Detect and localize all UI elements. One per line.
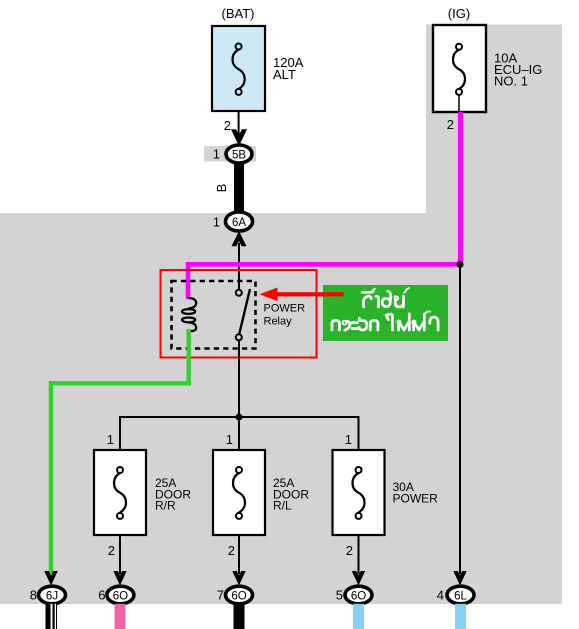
svg-text:POWER: POWER	[393, 491, 439, 505]
label (BAT)	[222, 6, 255, 21]
relay coil	[182, 298, 196, 331]
svg-text:6O: 6O	[231, 591, 246, 603]
arrow into 6L	[453, 571, 466, 586]
svg-text:6A: 6A	[232, 217, 246, 229]
svg-text:2: 2	[346, 543, 353, 558]
pin 1 labels of bottom fuses	[107, 432, 352, 447]
value label 120A ALT	[273, 55, 304, 82]
fuse 25A DOOR R/L	[213, 450, 265, 535]
arrow into 6O (7)	[232, 571, 245, 586]
connector 6L	[447, 586, 474, 604]
svg-text:1: 1	[226, 432, 233, 447]
connector 6A	[226, 212, 253, 231]
relay dashed box	[172, 281, 256, 349]
svg-text:4: 4	[437, 588, 444, 603]
svg-text:2: 2	[447, 117, 454, 132]
pin 2 labels of bottom fuses	[108, 543, 353, 558]
connector 6O (6)	[107, 586, 134, 604]
ground plane gray area main	[0, 213, 562, 604]
svg-text:1: 1	[107, 432, 114, 447]
svg-text:1: 1	[345, 432, 352, 447]
svg-text:2: 2	[108, 543, 115, 558]
svg-text:(BAT): (BAT)	[222, 6, 255, 21]
wire from 6A down to relay switch	[238, 243, 240, 290]
svg-text:1: 1	[213, 147, 220, 162]
arrow into 6O (5)	[352, 571, 365, 586]
magenta IG wire down and across to relay coil	[188, 112, 462, 299]
arrow into 6O (6)	[113, 571, 126, 586]
arrow out of 6A	[232, 231, 247, 246]
svg-text:R/L: R/L	[273, 499, 292, 513]
red annotation arrow	[260, 288, 344, 302]
connector 6O (7)	[226, 586, 253, 604]
label (IG)	[448, 6, 470, 21]
svg-text:6J: 6J	[46, 591, 58, 603]
svg-text:6O: 6O	[113, 591, 128, 603]
black wire stub	[234, 604, 245, 629]
svg-text:6L: 6L	[454, 591, 467, 603]
svg-text:2: 2	[228, 543, 235, 558]
svg-text:6O: 6O	[351, 591, 366, 603]
svg-text:8: 8	[30, 588, 37, 603]
value label 25A DOOR R/R	[155, 476, 191, 513]
pin 5 label	[336, 588, 343, 603]
value label 10A ECU-IG NO.1	[494, 51, 542, 89]
pin 6 label	[98, 588, 105, 603]
pin 1 label	[213, 215, 220, 230]
junction node	[236, 414, 243, 421]
striped wire stub below 6J	[46, 604, 58, 629]
wire fuse R/L to 6O	[238, 535, 240, 574]
svg-text:Relay: Relay	[264, 316, 293, 328]
pin 8 label	[30, 588, 37, 603]
wire fuse R/R to 6O	[119, 535, 121, 574]
wire to fuse DOOR R/L	[238, 417, 240, 450]
relay red highlight rectangle	[161, 270, 317, 358]
wire to fuse POWER	[358, 416, 360, 450]
green callout box	[323, 285, 448, 341]
svg-text:5B: 5B	[232, 150, 246, 162]
label POWER Relay	[264, 303, 306, 328]
wire fuse POWER to 6O	[358, 535, 360, 574]
value label 30A POWER	[393, 480, 439, 505]
connector 6J	[39, 586, 66, 604]
pin 4 label	[437, 588, 444, 603]
svg-text:POWER: POWER	[264, 303, 306, 315]
relay switch	[236, 289, 250, 340]
light blue wire stub	[353, 604, 364, 629]
svg-text:1: 1	[213, 215, 220, 230]
green wire from relay coil to 6J	[51, 329, 191, 574]
Thai label line 2 (power window)	[332, 311, 438, 330]
light blue wire stub	[455, 604, 466, 629]
junction node at IG branch	[457, 261, 464, 268]
value label 25A DOOR R/L	[273, 476, 309, 513]
svg-text:2: 2	[224, 118, 231, 133]
thick wire B between 5B and 6A	[234, 162, 244, 212]
arrow into 5B	[231, 129, 247, 146]
wire to fuse DOOR R/R	[119, 416, 121, 450]
pink wire stub	[115, 604, 126, 629]
pin 2 label	[447, 117, 454, 132]
fusible link 120A ALT box	[212, 26, 265, 111]
svg-text:5: 5	[336, 588, 343, 603]
fuse 10A ECU-IG box	[433, 25, 486, 112]
svg-text:B: B	[214, 184, 229, 193]
wire label B	[214, 184, 229, 193]
svg-text:(IG): (IG)	[448, 6, 470, 21]
pin 1 label	[213, 147, 220, 162]
connector 6O (5)	[345, 586, 372, 604]
arrow into 6J	[44, 571, 57, 586]
pin 2 label	[224, 118, 231, 133]
wire from relay switch to branch junction	[238, 340, 240, 417]
fuse 25A DOOR R/R	[94, 450, 146, 535]
Thai label line 1 (relay)	[362, 288, 409, 307]
connector band 5B	[204, 146, 256, 162]
svg-text:NO. 1: NO. 1	[494, 74, 528, 89]
branch wire horizontal	[120, 416, 359, 418]
wire from junction down to 6L	[459, 264, 461, 574]
svg-text:6: 6	[98, 588, 105, 603]
svg-text:7: 7	[217, 588, 224, 603]
ground plane gray area right column	[426, 25, 562, 605]
svg-text:R/R: R/R	[155, 499, 176, 513]
connector 5B	[226, 145, 252, 163]
fuse 30A POWER	[333, 450, 385, 535]
svg-text:ALT: ALT	[273, 67, 296, 82]
wire from ALT fuse to 5B	[238, 111, 240, 136]
pin 7 label	[217, 588, 224, 603]
